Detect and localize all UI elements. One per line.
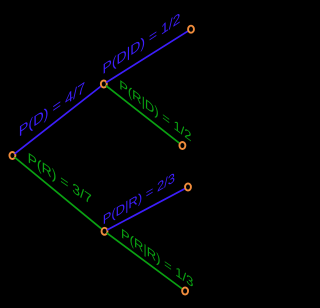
wire R-DR <box>107 187 188 230</box>
node D <box>101 81 107 88</box>
node RR <box>182 288 188 295</box>
node root <box>9 152 15 159</box>
wire R-RR <box>107 233 185 291</box>
wire root-D <box>15 84 104 154</box>
wire D-DD <box>106 29 191 82</box>
probability tree diagram <box>0 0 208 308</box>
wire D-RD <box>106 86 182 146</box>
node RD <box>179 142 185 149</box>
wire root-R <box>15 157 105 231</box>
node R <box>102 228 108 235</box>
node DD <box>188 26 194 33</box>
node DR <box>185 184 191 191</box>
